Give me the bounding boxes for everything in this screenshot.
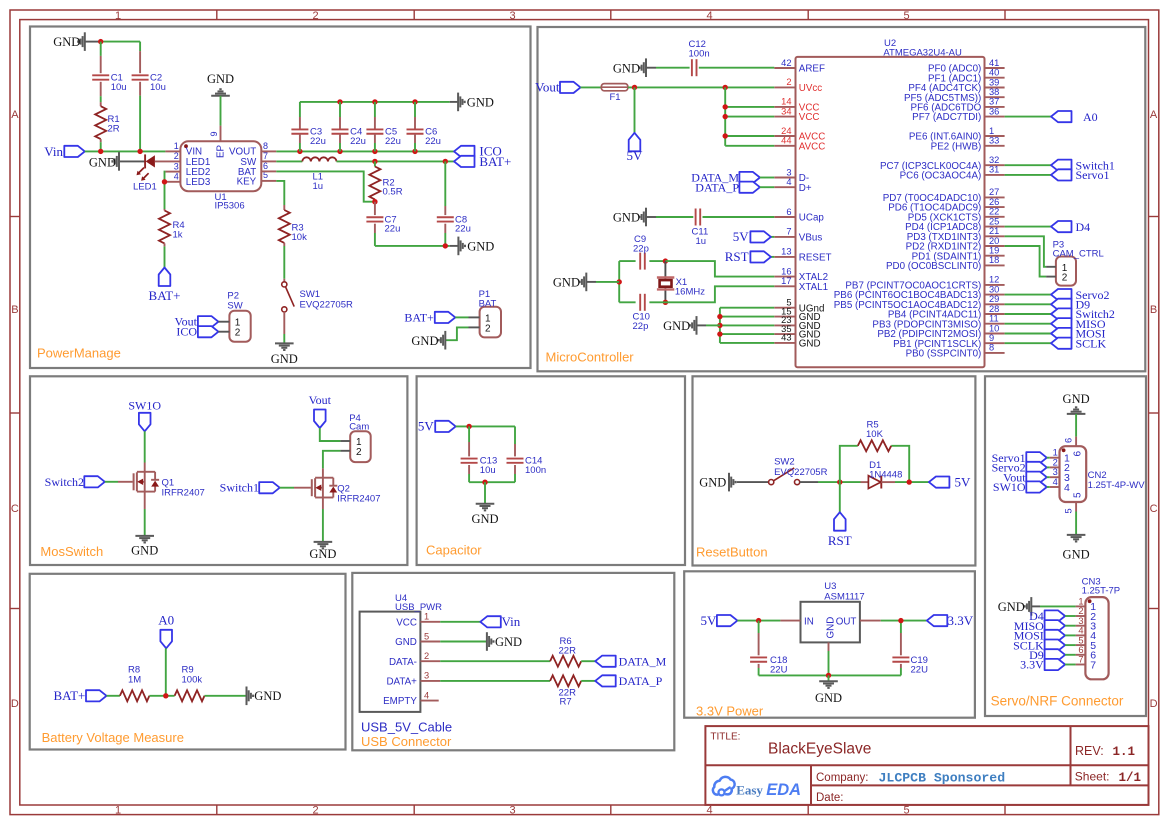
svg-text:13: 13	[781, 247, 791, 257]
svg-text:1.25T-4P-WV: 1.25T-4P-WV	[1088, 480, 1146, 491]
connector P3 body	[1056, 257, 1076, 286]
wire C1 bottom lead	[100, 82, 102, 96]
P2 pin2 stub	[218, 331, 229, 333]
wire GND to LED1	[120, 160, 145, 162]
wire C2 top lead	[139, 42, 141, 52]
wire BAT+ to R8	[107, 695, 120, 697]
wire pin 29 to D9	[1005, 303, 1051, 305]
section box Battery Voltage Measure	[30, 574, 346, 750]
svg-text:Vin: Vin	[44, 144, 63, 159]
svg-text:A: A	[11, 109, 19, 121]
section box MosSwitch	[30, 376, 407, 565]
CN2 pin 4 stub	[1050, 486, 1060, 488]
svg-text:2: 2	[356, 447, 362, 458]
svg-text:26: 26	[989, 197, 999, 207]
svg-text:4: 4	[1053, 477, 1058, 487]
title block row line 2	[811, 784, 1149, 786]
transistor Q1 IRFR2407	[133, 473, 135, 490]
P3 pin stubs	[1046, 266, 1056, 268]
svg-text:TITLE:: TITLE:	[710, 731, 740, 742]
pin 1 VIN stub	[165, 150, 180, 152]
wire pin 11 to MISO	[1005, 323, 1051, 325]
wire A0 down	[165, 648, 167, 696]
ground flag GND below Q2	[314, 541, 333, 543]
wire GND rail U2	[719, 308, 721, 343]
svg-text:7: 7	[786, 227, 791, 237]
wire pin 36 to A0	[1005, 116, 1051, 118]
wire GND to CN3 pin1	[1032, 605, 1040, 607]
svg-text:AREF: AREF	[799, 64, 825, 75]
wire bottom rail 3v3	[759, 674, 901, 676]
junction dot	[98, 39, 103, 44]
svg-text:22p: 22p	[633, 243, 649, 254]
svg-text:40: 40	[989, 68, 999, 78]
U3 GND pin wire	[828, 642, 830, 651]
svg-text:43: 43	[781, 333, 791, 343]
CN3 pin 6 stub	[1076, 654, 1086, 656]
svg-text:SW1O: SW1O	[993, 480, 1026, 494]
svg-text:2: 2	[1078, 606, 1083, 616]
wire CN2 pin5 to GND	[1075, 512, 1077, 535]
ground flag GND reset	[728, 473, 730, 492]
svg-text:PC6 (OC3AOC4A): PC6 (OC3AOC4A)	[900, 171, 982, 182]
svg-text:3: 3	[1078, 616, 1083, 626]
svg-text:BAT+: BAT+	[404, 310, 434, 324]
U1 pin 9 EP	[220, 126, 222, 142]
wire Vout to P4 pin1	[320, 428, 341, 441]
net flag ICO to P2 pin2	[198, 326, 219, 337]
svg-text:10k: 10k	[292, 232, 308, 243]
svg-text:2: 2	[312, 804, 318, 816]
svg-text:1: 1	[424, 612, 429, 622]
svg-text:DATA+: DATA+	[386, 677, 417, 688]
wire GND to XTAL loop	[587, 281, 596, 283]
svg-text:GND: GND	[495, 635, 522, 649]
wire SW1 to GND	[283, 312, 285, 334]
svg-text:GND: GND	[207, 72, 234, 86]
svg-text:GND: GND	[89, 156, 116, 170]
ground flag GND top-left	[84, 32, 86, 51]
svg-text:5V: 5V	[418, 419, 435, 434]
svg-text:3: 3	[174, 161, 179, 171]
wire Vin rail	[85, 150, 166, 152]
svg-text:2: 2	[235, 327, 241, 338]
svg-text:USB_5V_Cable: USB_5V_Cable	[361, 720, 452, 735]
wire pin 31 to Servo1	[1005, 174, 1051, 176]
resistor R9	[175, 690, 205, 701]
svg-text:ICO: ICO	[176, 325, 197, 339]
svg-text:12: 12	[989, 275, 999, 285]
svg-text:9: 9	[989, 333, 994, 343]
wire CN3 pin 4	[1065, 634, 1076, 636]
svg-text:GND: GND	[467, 239, 494, 253]
svg-text:Switch2: Switch2	[45, 475, 84, 489]
svg-text:42: 42	[781, 58, 791, 68]
svg-text:VCC: VCC	[799, 112, 820, 123]
wire VCC AVCC rail	[724, 87, 726, 145]
capacitor C2	[132, 74, 149, 76]
net flag BAT+ right	[454, 156, 475, 167]
crystal X1 16MHz	[664, 261, 666, 302]
svg-text:D: D	[11, 698, 19, 710]
net flag D4	[1051, 221, 1072, 232]
capacitor C8	[444, 206, 446, 215]
svg-text:DATA_P: DATA_P	[619, 674, 663, 688]
svg-text:EVQ22705R: EVQ22705R	[300, 299, 353, 310]
svg-text:GND: GND	[663, 319, 690, 333]
junction dot	[907, 479, 912, 484]
svg-text:ResetButton: ResetButton	[696, 545, 768, 560]
LED LED1	[144, 154, 146, 168]
svg-text:8: 8	[263, 141, 268, 151]
net flag Servo2 to CN2 pin 2	[1026, 462, 1047, 473]
CN3 pin 4 stub	[1076, 634, 1086, 636]
connector CN2 body	[1060, 446, 1087, 502]
svg-text:Vout: Vout	[309, 393, 332, 407]
svg-text:BlackEyeSlave: BlackEyeSlave	[768, 741, 871, 758]
svg-text:18: 18	[989, 255, 999, 265]
svg-text:REV:: REV:	[1075, 744, 1104, 758]
svg-text:1M: 1M	[128, 674, 141, 685]
capacitor C4	[339, 102, 341, 117]
svg-text:22u: 22u	[385, 136, 401, 147]
svg-text:29: 29	[989, 294, 999, 304]
wire RST drop	[839, 482, 841, 512]
net flag SW1O to CN2 pin 4	[1026, 481, 1047, 492]
svg-text:37: 37	[989, 97, 999, 107]
net flag 5V reset	[929, 477, 950, 488]
CN3 pin 2 stub	[1076, 615, 1086, 617]
ground flag GND at UCap	[645, 208, 647, 227]
resistor R7	[550, 675, 581, 686]
svg-text:AVCC: AVCC	[799, 141, 826, 152]
svg-text:SW: SW	[227, 300, 242, 311]
capacitor C10	[619, 301, 635, 303]
resistor R6	[550, 656, 581, 667]
net flag DATA_M	[739, 172, 760, 183]
svg-text:PF7 (ADC7TDI): PF7 (ADC7TDI)	[912, 112, 981, 123]
svg-text:VCC: VCC	[396, 617, 417, 628]
svg-text:2: 2	[1053, 457, 1058, 467]
svg-text:EP: EP	[216, 144, 227, 158]
svg-text:B: B	[11, 304, 18, 316]
svg-text:6: 6	[1072, 451, 1083, 457]
svg-text:4: 4	[424, 690, 429, 700]
wire pin 10 to MOSI	[1005, 333, 1051, 335]
section box 3.3V Power	[684, 571, 975, 717]
svg-text:36: 36	[989, 106, 999, 116]
junction dot	[372, 149, 377, 154]
svg-text:2: 2	[786, 77, 791, 87]
svg-text:KEY: KEY	[237, 176, 257, 187]
junction dot	[723, 104, 728, 109]
wire DATA+ to R7	[440, 680, 550, 682]
svg-text:A0: A0	[158, 613, 174, 628]
svg-text:IRFR2407: IRFR2407	[337, 493, 380, 504]
ground flag GND at P1	[444, 331, 446, 350]
wire CN3 pin 2	[1065, 615, 1076, 617]
svg-text:Sheet:: Sheet:	[1075, 770, 1110, 784]
wire R5 loop	[840, 446, 909, 482]
ground flag GND at crystal	[585, 273, 587, 292]
svg-text:GND: GND	[395, 637, 417, 648]
svg-text:Easy: Easy	[736, 782, 763, 797]
junction dot	[443, 159, 448, 164]
svg-text:17: 17	[781, 276, 791, 286]
net flag SCLK	[1051, 338, 1072, 349]
svg-text:XTAL1: XTAL1	[799, 282, 828, 293]
svg-text:6: 6	[786, 207, 791, 217]
svg-text:IRFR2407: IRFR2407	[162, 487, 205, 498]
svg-text:PowerManage: PowerManage	[37, 346, 121, 361]
wire pin20 to P3 pin2	[1005, 246, 1047, 277]
capacitor C13	[468, 426, 470, 442]
wire VOUT rail	[261, 150, 276, 152]
junction dot	[137, 149, 142, 154]
junction dot	[372, 99, 377, 104]
svg-text:DATA_P: DATA_P	[695, 180, 739, 194]
svg-text:1: 1	[115, 10, 121, 22]
svg-text:Vin: Vin	[502, 614, 521, 629]
CN3 pin 3 stub	[1076, 625, 1086, 627]
svg-text:5V: 5V	[627, 148, 644, 163]
svg-text:1u: 1u	[313, 181, 324, 192]
svg-text:BAT+: BAT+	[479, 154, 511, 169]
net flag 3.3V to CN3 pin 7	[1045, 659, 1066, 670]
svg-text:DATA-: DATA-	[389, 657, 417, 668]
wire R4 to BAT+	[164, 243, 166, 246]
svg-text:39: 39	[989, 77, 999, 87]
CN2 pin 3 stub	[1050, 476, 1060, 478]
svg-text:GND: GND	[613, 61, 640, 75]
svg-text:5: 5	[424, 631, 429, 641]
net flag A0	[1051, 111, 1072, 122]
junction dot	[898, 618, 903, 623]
svg-text:GND: GND	[471, 512, 498, 526]
wire C11 to UCap	[703, 216, 775, 218]
svg-text:10: 10	[989, 323, 999, 333]
U2 right pin stubs	[985, 67, 1005, 69]
svg-text:GND: GND	[815, 691, 842, 705]
ground flag GND at LED1	[118, 152, 120, 171]
ic U3 ASM1117 body	[801, 602, 860, 643]
wire RST to RESET	[771, 256, 774, 258]
switch SW1 EVQ22705R	[282, 282, 287, 287]
svg-text:10u: 10u	[150, 82, 166, 93]
junction dot	[756, 618, 761, 623]
svg-text:LED3: LED3	[186, 177, 211, 188]
wire 5V to VBus	[771, 236, 774, 238]
svg-text:5: 5	[1078, 635, 1083, 645]
svg-text:4: 4	[706, 10, 712, 22]
svg-text:19: 19	[989, 246, 999, 256]
wire C1 top lead	[100, 42, 102, 56]
net flag BAT+ below R4	[159, 268, 171, 287]
switch SW2 EVQ22705R	[769, 480, 774, 485]
svg-text:24: 24	[781, 126, 791, 136]
svg-text:PB0 (SSPCINT0): PB0 (SSPCINT0)	[906, 349, 982, 360]
P2 pin1 stub	[218, 321, 229, 323]
wire to 5V flag	[634, 87, 636, 132]
junction dot	[482, 480, 487, 485]
net flag Switch1	[259, 482, 280, 493]
net flag RST below SW2	[834, 512, 846, 531]
svg-text:GND: GND	[467, 95, 494, 109]
svg-text:D4: D4	[1076, 220, 1091, 234]
net flag BAT+ battery	[86, 690, 107, 701]
junction dot	[617, 279, 622, 284]
net flag MOSI	[1051, 328, 1072, 339]
wire AVCC 44	[725, 145, 774, 147]
junction dot	[717, 314, 722, 319]
wire pin 32 to Switch1	[1005, 164, 1051, 166]
net flag D9 to CN3 pin 6	[1045, 649, 1066, 660]
svg-text:ASM1117: ASM1117	[824, 591, 864, 602]
ground flag GND below Q1	[135, 535, 154, 537]
svg-text:5V: 5V	[733, 229, 750, 244]
svg-text:41: 41	[989, 58, 999, 68]
svg-text:GND: GND	[1063, 548, 1090, 562]
svg-text:BAT: BAT	[479, 299, 497, 310]
svg-text:28: 28	[989, 304, 999, 314]
svg-text:31: 31	[989, 165, 999, 175]
junction dot	[337, 149, 342, 154]
svg-text:2: 2	[424, 651, 429, 661]
svg-text:EVQ22705R: EVQ22705R	[774, 467, 827, 478]
connector P1 body	[480, 307, 501, 338]
wire C10 to pin17	[665, 286, 774, 302]
P1 pin1 stub	[469, 316, 480, 318]
svg-text:GND: GND	[254, 689, 281, 703]
section box Capacitor	[417, 376, 685, 565]
wire top rail to C2	[101, 41, 140, 43]
ic U4 USB_PWR body	[360, 612, 421, 712]
svg-text:10u: 10u	[480, 465, 496, 476]
svg-text:5: 5	[1064, 508, 1074, 513]
svg-text:22p: 22p	[633, 321, 649, 332]
svg-text:Servo1: Servo1	[1076, 168, 1110, 182]
svg-text:22R: 22R	[559, 646, 577, 657]
junction dot	[717, 323, 722, 328]
ground flag GND at AREF	[645, 58, 647, 77]
svg-text:8: 8	[989, 343, 994, 353]
U3 OUT stub	[860, 620, 881, 622]
net flag Switch1	[1051, 160, 1072, 171]
svg-text:2: 2	[485, 323, 491, 334]
title block column line logo	[810, 765, 812, 805]
wire R3 to SW1	[283, 246, 285, 279]
junction dot	[663, 300, 668, 305]
svg-text:1: 1	[174, 141, 179, 151]
wire pin 28 to Switch2	[1005, 313, 1051, 315]
ground flag GND 3v3	[819, 680, 838, 682]
wire C9 to pin16	[665, 261, 774, 277]
net flag Vout to P2 pin1	[198, 316, 219, 327]
net flag DATA_P	[739, 182, 760, 193]
pin 2 LED1 stub	[155, 160, 181, 162]
svg-text:GND: GND	[1063, 392, 1090, 406]
wire BAT pin to R2 bottom	[261, 170, 276, 172]
section box ResetButton	[693, 376, 976, 565]
wire Q1 source to GND	[144, 492, 146, 509]
svg-text:38: 38	[989, 87, 999, 97]
svg-text:BAT+: BAT+	[54, 688, 86, 703]
svg-text:1k: 1k	[173, 230, 183, 241]
svg-text:1: 1	[989, 126, 994, 136]
connector P2 body	[229, 311, 250, 342]
wire GND to SW2	[737, 481, 769, 483]
svg-text:1/1: 1/1	[1119, 771, 1142, 785]
svg-text:DATA_M: DATA_M	[619, 654, 667, 668]
svg-text:JLCPCB Sponsored: JLCPCB Sponsored	[879, 771, 1006, 786]
svg-text:1.1: 1.1	[1113, 745, 1136, 759]
wire R9 to GND	[205, 695, 246, 697]
ground flag GND bottom right	[450, 245, 459, 247]
wire SW rail right	[337, 160, 455, 162]
svg-text:F1: F1	[610, 92, 621, 103]
P1 pin2 stub	[469, 326, 480, 328]
frame row ticks left	[10, 216, 20, 218]
svg-text:IN: IN	[804, 617, 814, 628]
svg-text:1: 1	[1078, 597, 1083, 607]
ground flag GND at CN3 pin1	[1030, 597, 1032, 616]
net flag RST at RESET	[750, 251, 771, 262]
junction dot	[717, 331, 722, 336]
svg-text:10u: 10u	[111, 82, 127, 93]
wire D1 to 5V	[895, 481, 929, 483]
svg-text:Servo/NRF Connector: Servo/NRF Connector	[991, 694, 1124, 709]
capacitor C5	[374, 102, 376, 117]
svg-text:22U: 22U	[770, 665, 788, 676]
svg-text:SW1: SW1	[300, 289, 321, 300]
net flag Vout at F1	[560, 82, 581, 93]
svg-text:0.5R: 0.5R	[383, 187, 403, 198]
svg-text:GND: GND	[271, 352, 298, 366]
title block outer	[705, 726, 1148, 805]
svg-text:GND: GND	[613, 211, 640, 225]
svg-text:MosSwitch: MosSwitch	[40, 544, 103, 559]
svg-text:RST: RST	[725, 249, 749, 264]
wire Q2 source to GND	[322, 498, 324, 510]
net flag 5V at VBus	[750, 231, 771, 242]
svg-text:5V: 5V	[955, 475, 972, 490]
svg-text:100n: 100n	[689, 48, 710, 59]
resistor R2	[374, 161, 376, 166]
wire bottom rail capacitor box	[469, 481, 515, 483]
svg-text:GND: GND	[699, 476, 726, 490]
capacitor C6	[414, 102, 416, 117]
net flag 3.3V	[927, 615, 948, 626]
svg-text:3: 3	[424, 671, 429, 681]
svg-text:44: 44	[781, 136, 791, 146]
wire DATA_M to D-	[760, 177, 774, 179]
svg-text:22u: 22u	[455, 224, 471, 235]
svg-text:9: 9	[209, 131, 219, 136]
wire EP to GND	[220, 96, 222, 126]
svg-text:4: 4	[1064, 482, 1070, 494]
svg-text:PE2 (HWB): PE2 (HWB)	[931, 141, 982, 152]
wire pin 25 to D4	[1005, 226, 1051, 228]
svg-text:A0: A0	[1083, 110, 1098, 124]
svg-text:C: C	[1150, 503, 1158, 515]
svg-text:6: 6	[1078, 645, 1083, 655]
svg-text:1: 1	[115, 804, 121, 816]
wire CN3 pin 7	[1065, 664, 1076, 666]
resistor R1	[95, 106, 106, 139]
wire CN2 pin 3	[1047, 476, 1050, 478]
svg-text:Date:: Date:	[816, 792, 844, 804]
ic U2 ATMEGA32U4-AU body	[796, 57, 985, 367]
